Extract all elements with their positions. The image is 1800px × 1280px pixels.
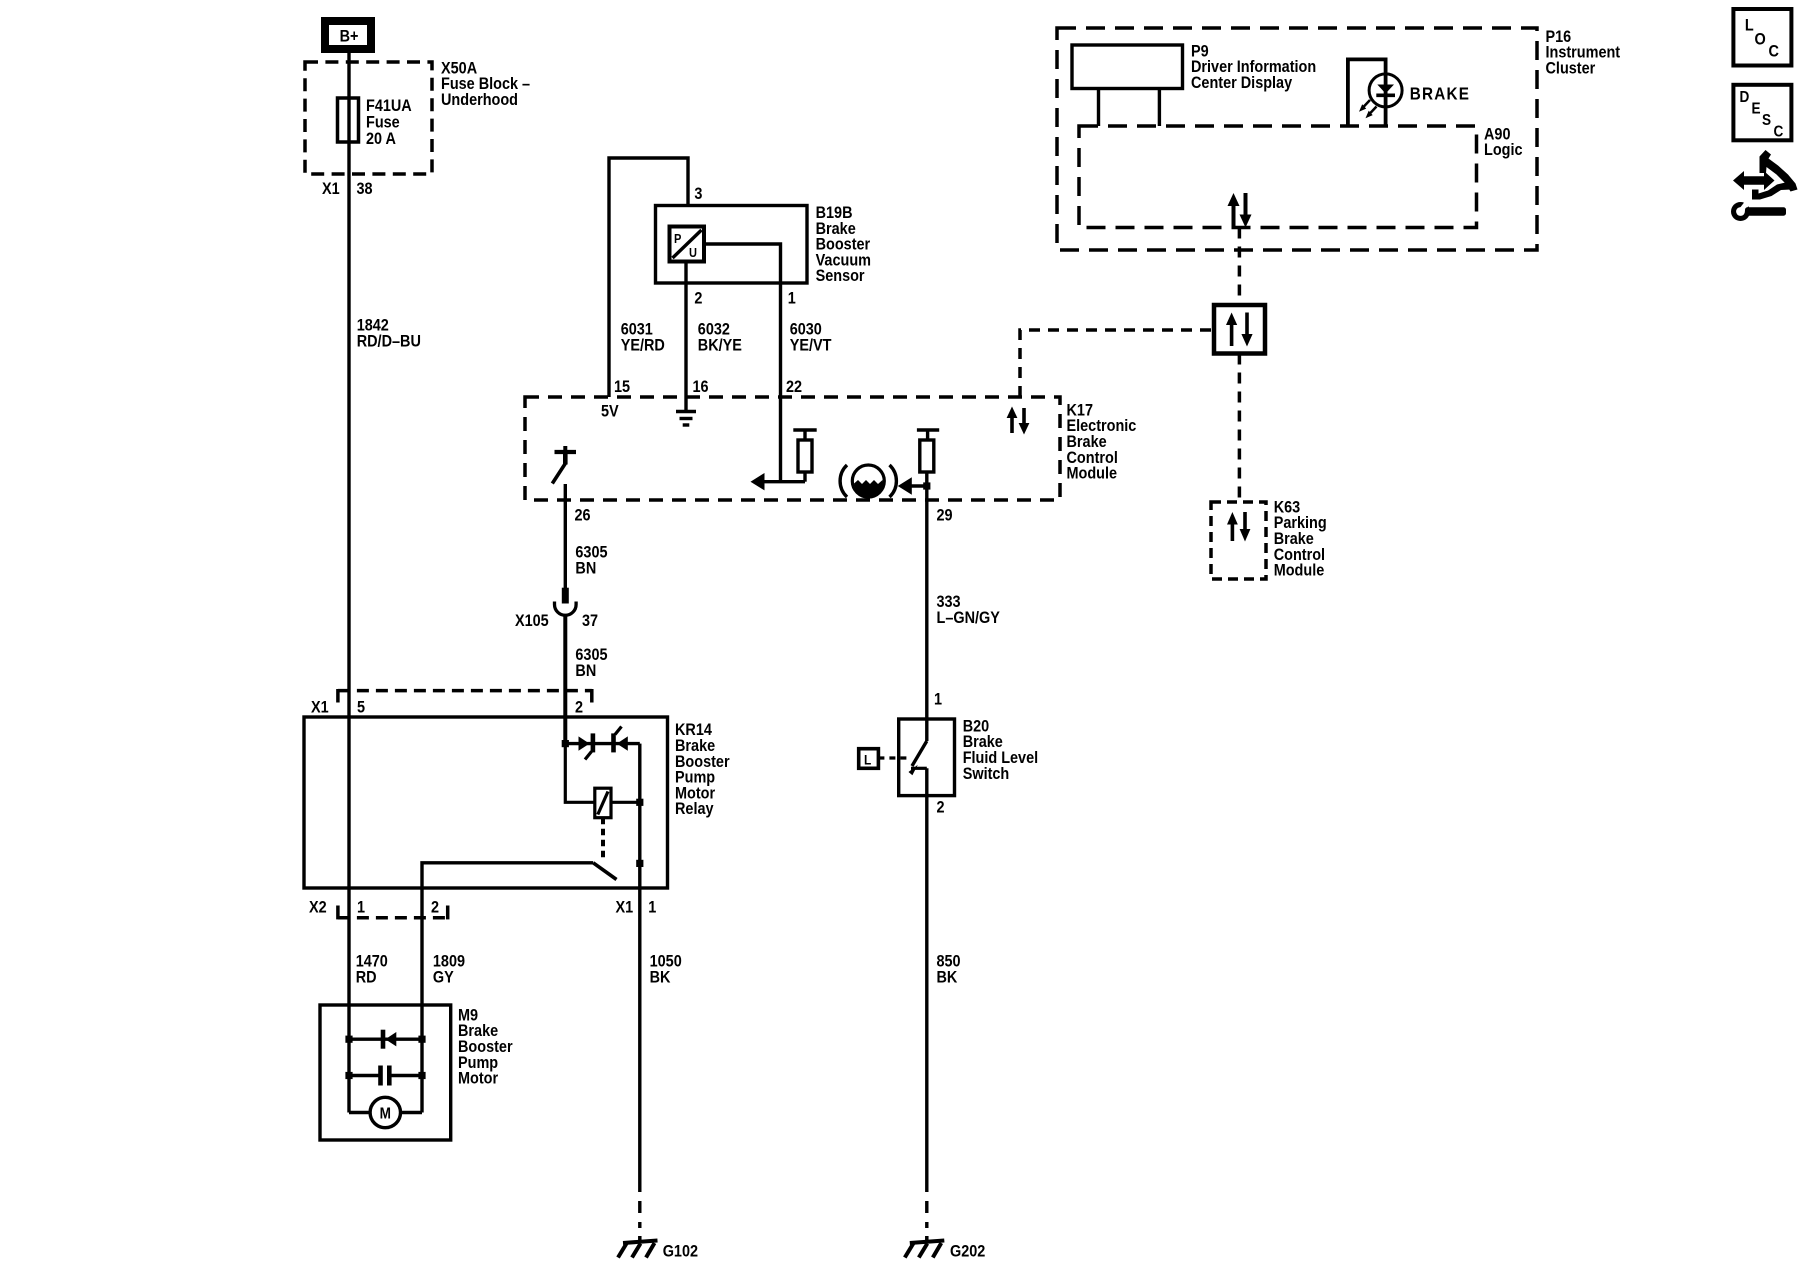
svg-text:1: 1 <box>648 898 656 916</box>
svg-text:X105: X105 <box>515 612 549 630</box>
junction fixed contact <box>636 860 643 867</box>
junction at pin29 arrow <box>923 482 930 489</box>
svg-text:1: 1 <box>788 289 796 307</box>
svg-text:2: 2 <box>694 289 702 307</box>
svg-text:S: S <box>1762 112 1771 129</box>
K17 electronic brake control module dashed box <box>525 397 1060 500</box>
connector X1 dashed line on top of KR14 <box>338 689 592 703</box>
svg-text:1: 1 <box>934 690 942 708</box>
ground G102 <box>618 1236 658 1258</box>
logic block A90 dashed box <box>1079 126 1477 228</box>
serial data dashed wire from gateway box to K63 <box>1238 354 1242 503</box>
fuse F41UA 20A <box>338 98 359 142</box>
svg-text:29: 29 <box>937 506 953 524</box>
M9 suppression diode branch <box>349 1030 422 1049</box>
svg-text:P: P <box>674 231 681 246</box>
serial data arrows inside K17 <box>1007 407 1030 435</box>
arrow into module at pin 22 <box>751 473 806 490</box>
svg-text:X1: X1 <box>616 898 634 916</box>
svg-text:15: 15 <box>614 378 630 396</box>
serial data arrows inside K63 <box>1227 512 1250 542</box>
svg-text:M: M <box>380 1106 391 1123</box>
brake warning indicator symbol inside K17 <box>840 465 896 497</box>
svg-text:U: U <box>689 245 697 260</box>
fuse block X50A dashed outline <box>305 62 432 174</box>
wire 6031 YE/RD from sensor pin 3 loop to K17 pin 15 <box>609 158 688 397</box>
M9 suppression capacitor branch <box>349 1066 422 1086</box>
svg-text:L: L <box>864 752 871 768</box>
sensor B19B outer box <box>656 206 808 284</box>
motor M circle <box>370 1097 400 1127</box>
resistor R pull-up on pin 22 line <box>793 430 816 482</box>
wire 6305 BN from X105 to KR14 pin 2 <box>563 616 567 744</box>
BRAKE indicator lamp wiring <box>1348 59 1386 126</box>
DESC legend box <box>1733 85 1791 141</box>
wire coil right side to fixed contact branch <box>611 801 640 804</box>
svg-text:E: E <box>1752 101 1761 118</box>
arrow into brake symbol from pin 29 resistor <box>898 477 927 494</box>
suppression zener diode pair in KR14 <box>579 727 628 760</box>
relay armature mechanical link dashed <box>601 818 605 858</box>
wire 1842 RD/D-BU vertical from B+ through fuse and KR14 to M9 <box>347 53 350 1113</box>
serial data dashed wire from A90 to gateway box <box>1238 228 1242 306</box>
fluid level sensor L symbol <box>859 749 911 769</box>
svg-text:2: 2 <box>575 698 583 716</box>
motor M9 box <box>320 1005 451 1140</box>
svg-text:38: 38 <box>357 180 373 198</box>
svg-text:C: C <box>1769 42 1779 60</box>
wire 6032 BK/YE sensor pin 2 to K17 pin 16 <box>684 262 687 398</box>
svg-text:L: L <box>1745 16 1754 34</box>
junction coil right <box>636 799 643 806</box>
relay switch blade <box>593 863 616 880</box>
svg-text:BRAKE: BRAKE <box>1410 83 1470 103</box>
in-line connector X105 pin 37 <box>555 588 577 616</box>
B+ battery positive feed symbol <box>325 21 371 49</box>
resistor pull-up on pin 29 line <box>917 430 939 472</box>
diagnostic link legend icon <box>1731 150 1798 221</box>
relay switch fixed contact wire to X1 pin 1 <box>638 802 641 1180</box>
svg-text:X1: X1 <box>311 698 329 716</box>
connector X2 dashed line at KR14 bottom <box>338 906 448 920</box>
svg-text:2: 2 <box>431 898 439 916</box>
wire 1809 GY from relay X2-2 to M9 <box>420 888 423 1113</box>
BRAKE indicator LED lamp <box>1359 74 1402 118</box>
relay coil KR14 <box>595 788 611 818</box>
wire from junction down to coil left side <box>565 744 595 803</box>
driver information center display P9 <box>1072 45 1183 126</box>
svg-text:D: D <box>1740 89 1750 106</box>
svg-text:26: 26 <box>575 506 591 524</box>
svg-text:B+: B+ <box>340 27 359 45</box>
wire 850 BK from B20 pin 2 down <box>925 768 928 1180</box>
B20 switch blade <box>909 741 927 775</box>
svg-text:16: 16 <box>693 378 709 396</box>
M9 motor armature wires <box>349 1111 370 1114</box>
switch symbol inside K17 at pin 26 <box>552 446 576 484</box>
wire 850 BK dashed portion to G202 <box>925 1180 928 1228</box>
serial data arrows inside A90 <box>1228 193 1252 228</box>
junction dots capacitor row <box>345 1072 352 1079</box>
svg-text:G202: G202 <box>950 1242 986 1260</box>
svg-text:850BK: 850BK <box>937 952 961 986</box>
wire from diodes down to coil right side <box>638 744 641 803</box>
svg-text:1: 1 <box>357 898 365 916</box>
parking brake control module K63 dashed box <box>1211 502 1266 579</box>
pressure transducer P/U symbol <box>670 227 705 262</box>
svg-text:22: 22 <box>786 378 802 396</box>
wire 6305 BN from K17 pin 26 to X105 <box>564 484 567 588</box>
ground symbol inside K17 at pin 16 <box>676 397 696 425</box>
LOC legend box <box>1733 9 1791 66</box>
wire 1050 BK lower dashed portion to G102 <box>638 1180 641 1228</box>
svg-text:5: 5 <box>357 698 365 716</box>
wire from junction to suppression diodes <box>565 742 640 745</box>
junction at KR14 pin 2 <box>562 740 569 747</box>
svg-text:G102: G102 <box>663 1242 699 1260</box>
svg-text:2: 2 <box>937 798 945 816</box>
ground G202 <box>905 1236 945 1258</box>
relay KR14 box <box>304 717 668 888</box>
junction dots diode row <box>345 1036 352 1043</box>
wire 6030 YE/VT sensor pin 1 to K17 pin 22 <box>704 244 781 482</box>
relay switch common wire to X2 pin 2 <box>422 863 593 888</box>
svg-text:X1: X1 <box>322 180 340 198</box>
brake fluid level switch B20 box <box>899 719 955 796</box>
svg-text:O: O <box>1755 30 1766 48</box>
svg-text:3: 3 <box>694 185 702 203</box>
svg-text:C: C <box>1774 124 1784 141</box>
serial data dashed wire from K17 to gateway box <box>1020 330 1214 397</box>
svg-text:37: 37 <box>582 612 598 630</box>
serial data gateway box <box>1214 305 1265 354</box>
wire from resistor down through K17 pin 29 <box>925 472 928 741</box>
svg-text:5V: 5V <box>601 402 619 420</box>
svg-text:X2: X2 <box>309 898 327 916</box>
instrument cluster P16 dashed box <box>1057 28 1537 250</box>
